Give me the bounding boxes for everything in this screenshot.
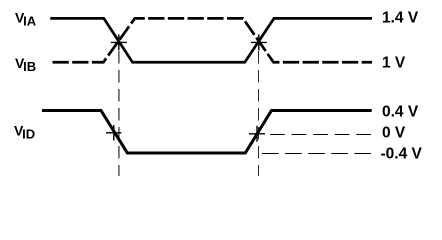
svg-text:VIA: VIA — [15, 10, 37, 29]
0 V dashed level line — [270, 134, 371, 136]
-0.4 V dashed level line — [262, 153, 371, 155]
svg-text:VIB: VIB — [15, 55, 36, 74]
waveform VID thick — [42, 111, 372, 154]
waveform VIA solid — [50, 18, 372, 62]
svg-text:1 V: 1 V — [382, 54, 406, 71]
crossing marker 4 — [249, 126, 265, 142]
crossing marker 1 — [111, 34, 127, 50]
svg-text:VID: VID — [14, 123, 35, 142]
waveform VIB dashed — [53, 18, 373, 62]
svg-text:-0.4 V: -0.4 V — [381, 146, 423, 163]
vertical dashed line 1 — [118, 51, 120, 176]
svg-text:1.4 V: 1.4 V — [382, 10, 419, 27]
vertical dashed line 2 — [258, 51, 260, 176]
svg-text:0 V: 0 V — [382, 124, 406, 141]
crossing marker 3 — [106, 125, 122, 141]
crossing marker 2 — [251, 34, 267, 50]
svg-text:0.4 V: 0.4 V — [382, 104, 419, 121]
